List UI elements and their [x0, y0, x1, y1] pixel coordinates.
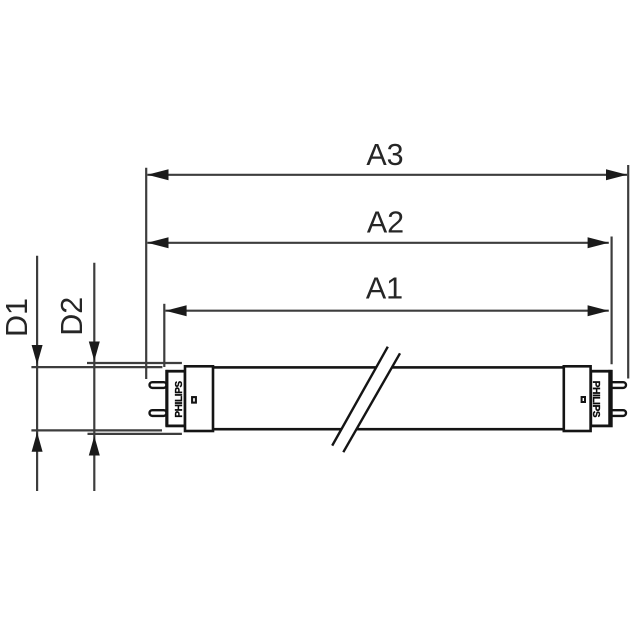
left cap vent square	[192, 397, 196, 403]
arrowhead A1 right	[588, 305, 609, 316]
break line 2	[343, 353, 400, 452]
dimension line D1	[36, 256, 38, 491]
dimension line D2	[93, 263, 95, 491]
break gap erase	[332, 347, 400, 453]
extension line left for A1	[163, 304, 165, 367]
extension line right for A2/A1	[610, 237, 612, 365]
extension line top for D1	[31, 366, 162, 368]
arrowhead A1 left	[165, 305, 186, 316]
tube body	[213, 367, 565, 429]
svg-text:D2: D2	[55, 297, 89, 336]
right end plate / PHILIPS band	[591, 371, 612, 426]
svg-text:D1: D1	[0, 298, 34, 337]
dimension line A2	[147, 242, 609, 244]
right cap vent square	[582, 397, 585, 402]
dimension line A3	[147, 174, 627, 176]
extension line bottom for D2	[88, 433, 182, 435]
svg-text:A1: A1	[366, 271, 403, 305]
arrowhead A3 left	[147, 169, 168, 180]
left band thick left border	[165, 370, 168, 427]
arrowhead A2 left	[147, 237, 168, 248]
extension line top for D2	[87, 362, 182, 364]
arrowhead A3 right	[606, 169, 627, 180]
arrowhead D1 bottom	[32, 432, 43, 452]
right cap	[564, 366, 591, 431]
right pin 2	[610, 410, 626, 416]
arrowhead D1 top	[32, 345, 43, 365]
svg-text:A2: A2	[367, 205, 404, 239]
extension line bottom for D1	[31, 429, 162, 431]
arrowhead A2 right	[588, 237, 609, 248]
left cap	[185, 366, 213, 431]
dimension line A1	[165, 310, 608, 312]
right pin 1	[610, 382, 626, 388]
extension line left for A3/A2	[145, 168, 147, 379]
break line 1	[332, 347, 388, 446]
arrowhead D2 bottom	[89, 436, 100, 456]
left end plate / PHILIPS band	[167, 371, 185, 426]
right band thick right border	[608, 370, 611, 427]
left pin 2	[150, 410, 167, 416]
arrowhead D2 top	[89, 342, 100, 362]
svg-text:PHILIPS: PHILIPS	[174, 380, 185, 417]
svg-text:A3: A3	[366, 138, 403, 172]
left pin 1	[150, 382, 167, 388]
extension line right for A3	[627, 165, 629, 379]
